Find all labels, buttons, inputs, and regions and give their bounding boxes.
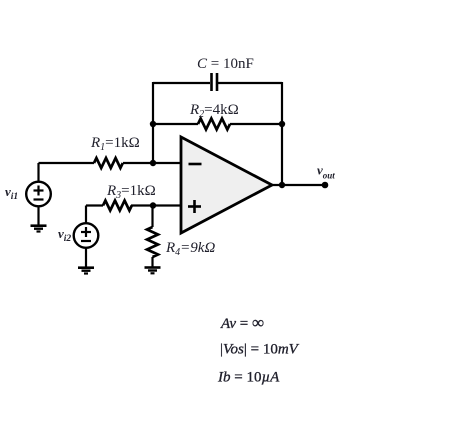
resistor R1 [94, 158, 123, 168]
label R1=1kOhm [90, 135, 140, 153]
source vi2 [74, 223, 99, 248]
svg-text:Av = ∞: Av = ∞ [220, 313, 264, 332]
node junction noninverting input and R4 [150, 202, 156, 208]
label vi1 [5, 184, 18, 202]
equation Ib = 10uA [217, 370, 280, 386]
ground below vi1 [31, 226, 47, 232]
label R3=1kOhm [106, 183, 156, 201]
wire: top capacitor branch right segment [218, 82, 282, 84]
wire: inverting input wire from R1 to op-amp [123, 162, 181, 164]
wire: R4 top lead [151, 206, 153, 228]
wire: R2 branch right lead [230, 123, 282, 125]
equation Av = infinity [220, 313, 264, 332]
label C = 10nF [197, 56, 254, 72]
node junction at right vertical and R2 branch [279, 121, 285, 127]
svg-text:R1=1kΩ: R1=1kΩ [90, 135, 140, 153]
resistor R4 [147, 227, 158, 257]
svg-text:vout: vout [317, 163, 335, 181]
resistor R3 [103, 201, 132, 211]
wire: R2 branch left lead [153, 123, 198, 125]
wire: vi2 top stub [85, 206, 87, 224]
svg-text:C = 10nF: C = 10nF [197, 56, 254, 72]
svg-text:R3=1kΩ: R3=1kΩ [106, 183, 156, 201]
resistor R2 [198, 119, 230, 130]
wire: top capacitor branch left segment [153, 82, 210, 84]
node junction at left vertical and R2 branch [150, 121, 156, 127]
label R4=9kOhm [165, 240, 215, 258]
svg-text:Ib = 10µA: Ib = 10µA [217, 370, 280, 386]
wire: inverting input wire from vi1 to R1 [39, 162, 95, 164]
label vout [317, 163, 335, 181]
svg-text:|Vos| = 10mV: |Vos| = 10mV [220, 342, 300, 358]
wire: right vertical feedback wire [281, 82, 283, 185]
svg-text:vi1: vi1 [5, 184, 18, 202]
wire: output wire [272, 184, 325, 186]
svg-text:R2=4kΩ: R2=4kΩ [189, 102, 239, 120]
wire: vi2 bottom stub [85, 248, 87, 268]
wire: left vertical feedback wire [152, 82, 154, 163]
wire: noninverting input wire from R3 to op-amp [131, 204, 181, 206]
wire: R4 bottom lead [151, 257, 153, 267]
label vi2 [58, 226, 71, 244]
node terminal vout [322, 182, 329, 189]
op-amp U1 [181, 137, 272, 233]
equation |Vos| = 10mV [220, 342, 300, 358]
ground below vi2 [78, 268, 94, 274]
wire: vi1 top stub [37, 163, 39, 182]
node junction inverting input and feedback [150, 160, 156, 166]
capacitor C [212, 73, 218, 91]
ground below R4 [145, 268, 161, 274]
svg-text:R4=9kΩ: R4=9kΩ [165, 240, 215, 258]
svg-text:vi2: vi2 [58, 226, 71, 244]
wire: noninverting input wire from vi2 to R3 [86, 204, 103, 206]
node junction output and feedback [279, 182, 285, 188]
wire: vi1 bottom stub [37, 206, 39, 226]
label R2=4kOhm [189, 102, 239, 120]
source vi1 [26, 182, 51, 207]
